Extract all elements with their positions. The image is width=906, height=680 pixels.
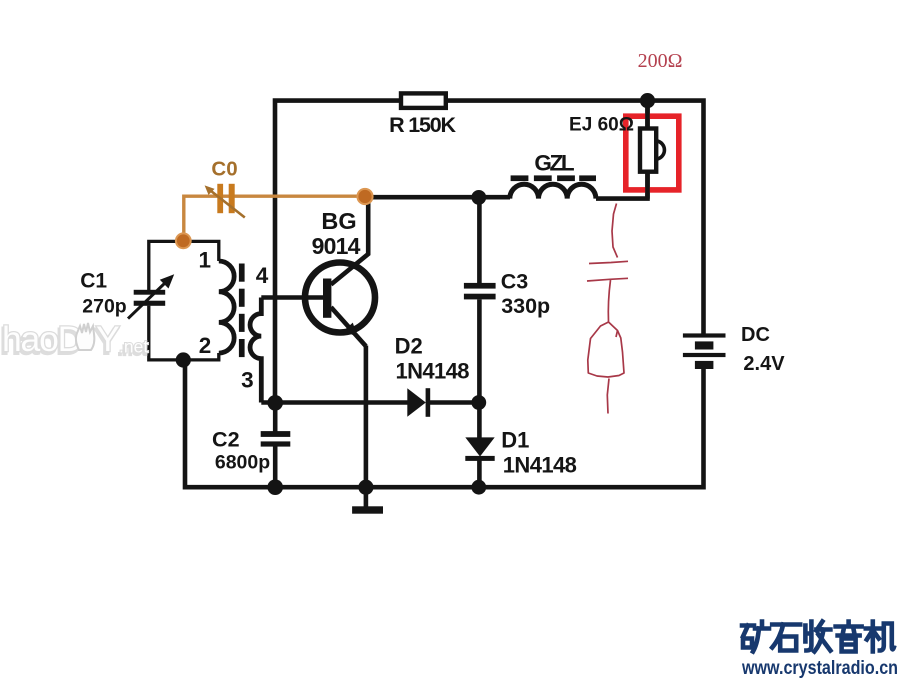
capacitor C2 plates	[261, 431, 291, 437]
svg-text:9014: 9014	[312, 233, 361, 259]
svg-text:6800p: 6800p	[215, 451, 270, 473]
earphone ear hook arc	[657, 141, 665, 159]
svg-text:C1: C1	[80, 270, 107, 293]
transistor Q1 BG 9014 body circle	[305, 263, 375, 333]
svg-text:270p: 270p	[82, 295, 127, 317]
svg-text:Y: Y	[96, 319, 120, 359]
watermark haoDIY.net	[1, 319, 149, 362]
node dot C3 top	[471, 190, 486, 205]
svg-text:BG: BG	[321, 208, 356, 234]
svg-text:4: 4	[256, 263, 269, 288]
capacitor C0 plates	[217, 184, 223, 213]
svg-text:1: 1	[198, 248, 211, 273]
capacitor C1 plates	[134, 290, 166, 295]
wire C2 top	[273, 403, 278, 432]
char shi	[772, 625, 800, 651]
node dot D2 cathode	[471, 395, 486, 410]
wire emitter vertical to ground node	[364, 346, 369, 488]
inductor L1 primary winding (pins 1-2)	[219, 261, 234, 353]
wire battery to bottom rail	[185, 360, 704, 487]
transistor Q1 base bar	[323, 279, 331, 318]
svg-text:DC: DC	[741, 324, 770, 346]
transistor Q1 collector lead	[331, 197, 368, 285]
watermark hand glyph	[76, 323, 94, 350]
node dot ground	[358, 480, 373, 495]
svg-text:EJ 60Ω: EJ 60Ω	[569, 114, 634, 135]
inductor GZL winding	[510, 184, 596, 198]
svg-text:2.4V: 2.4V	[743, 353, 785, 375]
wire earphone vertical over red box	[645, 101, 650, 199]
resistor R1 150K body	[401, 93, 446, 108]
svg-text:R 150K: R 150K	[389, 113, 456, 137]
inductor L2 secondary winding (pins 4-3)	[250, 298, 261, 403]
node dot C2 bottom	[267, 479, 283, 495]
node dot top right	[640, 93, 655, 108]
battery B1 plates	[683, 333, 726, 369]
svg-text:haoD: haoD	[2, 319, 82, 359]
transistor Q1 emitter lead with arrow	[331, 307, 366, 346]
capacitor C0 trimmer arrow	[209, 189, 245, 218]
wire GZL to earphone corner	[596, 172, 648, 199]
svg-text:3: 3	[241, 368, 254, 393]
svg-text:.net: .net	[119, 337, 148, 357]
svg-text:C3: C3	[501, 269, 529, 293]
red highlight box around earphone	[626, 116, 679, 190]
wire top rail	[275, 101, 704, 403]
wire C3 branch lower	[477, 300, 482, 438]
svg-text:C0: C0	[211, 158, 237, 181]
earphone EJ body	[640, 129, 656, 172]
node B tank top junction (orange)	[176, 233, 191, 248]
node A collector junction (orange)	[357, 189, 372, 204]
char kuang	[742, 622, 769, 652]
svg-text:200Ω: 200Ω	[638, 50, 683, 72]
svg-text:GZL: GZL	[534, 151, 574, 176]
svg-text:D1: D1	[501, 427, 529, 452]
node dot D1 bottom	[471, 480, 486, 495]
wire C2 bottom	[273, 446, 278, 487]
svg-text:C2: C2	[212, 427, 240, 451]
svg-text:D2: D2	[395, 333, 423, 358]
wire orange antenna line	[184, 196, 365, 241]
char ji	[866, 622, 894, 652]
diode D1 triangle and bar	[465, 437, 494, 456]
wire D2 cathode to C3 node	[430, 400, 479, 405]
capacitor C3 plates	[464, 283, 496, 289]
char yin	[836, 622, 862, 652]
banner logo text (CJK drawn)	[742, 622, 894, 652]
svg-text:1N4148: 1N4148	[395, 358, 469, 383]
diode D2 triangle and bar	[407, 388, 426, 417]
inductor GZL core dashes	[511, 175, 596, 181]
tank loop left/top/bottom edges	[149, 241, 219, 360]
wire transistor base	[261, 295, 323, 300]
svg-text:1N4148: 1N4148	[503, 452, 577, 477]
ground symbol	[364, 487, 369, 507]
wire base node row (pin3 to D2 anode)	[261, 400, 407, 405]
wire earphone top to node	[645, 101, 650, 129]
svg-text:330p: 330p	[501, 294, 550, 318]
wire C3 branch upper	[477, 197, 482, 283]
svg-text:www.crystalradio.cn: www.crystalradio.cn	[741, 657, 898, 679]
node dot base row left	[267, 395, 283, 411]
wire collector node to GZL	[365, 195, 510, 200]
red hand-drawn annotation scribble	[587, 204, 628, 414]
capacitor C1 arrow	[128, 282, 166, 319]
node tank bottom junction	[176, 352, 191, 367]
transformer core dashes	[239, 264, 245, 358]
wire D1 cathode to bottom rail	[477, 461, 482, 488]
svg-text:2: 2	[199, 333, 212, 358]
char shou	[805, 622, 830, 652]
